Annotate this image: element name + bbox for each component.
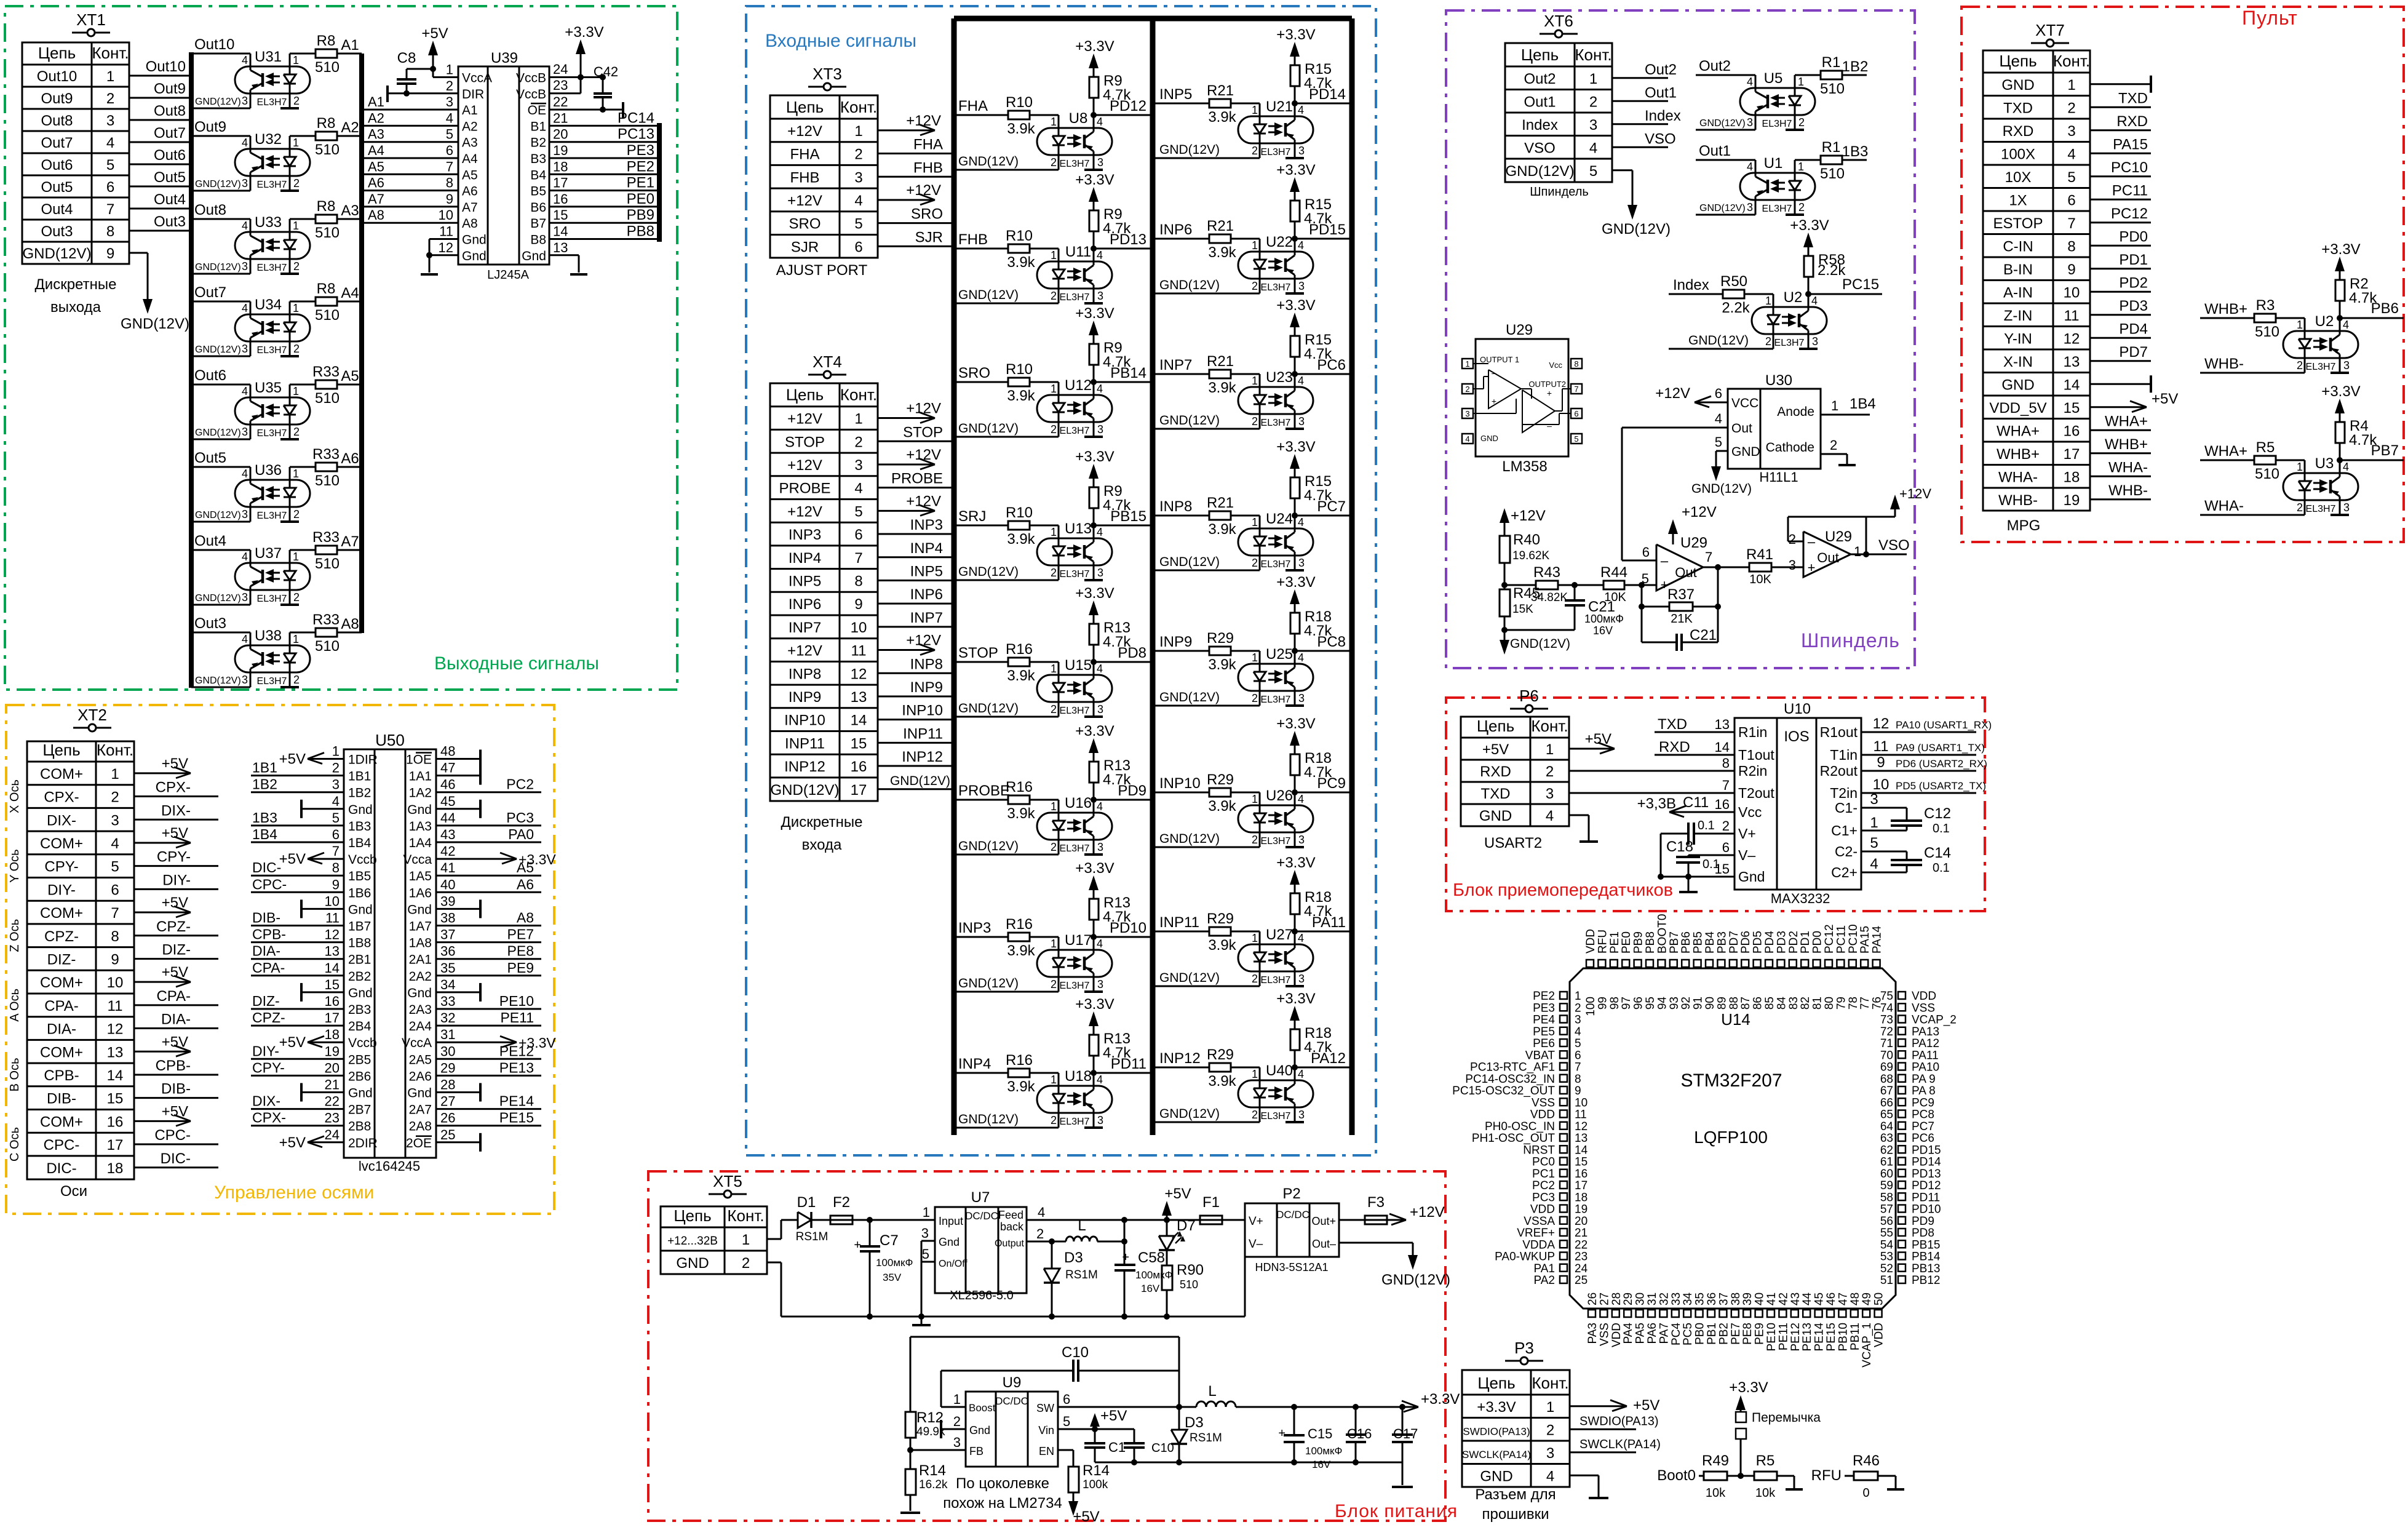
svg-text:Пульт: Пульт [2242,7,2298,29]
svg-text:GND(12V): GND(12V) [1699,203,1746,213]
svg-text:Блок питания: Блок питания [1335,1501,1458,1521]
svg-text:66: 66 [1880,1096,1893,1109]
svg-text:C Ось: C Ось [8,1127,22,1161]
wire Out1 [1612,100,1668,102]
pin 95 PB8 [1646,960,1653,967]
svg-text:PD3: PD3 [1775,931,1788,954]
svg-text:GND(12V): GND(12V) [958,839,1019,853]
optocoupler U25 [1238,664,1313,691]
wire CPA- [134,1004,218,1006]
svg-text:По цоколевке: По цоколевке [956,1475,1049,1492]
svg-text:INP3: INP3 [789,527,821,543]
svg-text:WHB+: WHB+ [2204,301,2247,317]
capacitor C18 [1688,855,1734,856]
wire PE14 [436,1108,541,1110]
svg-text:INP9: INP9 [789,689,821,706]
svg-text:PB10: PB10 [1837,1323,1850,1351]
svg-text:6: 6 [1574,409,1578,418]
svg-text:4: 4 [1546,808,1554,824]
svg-text:PE3: PE3 [627,142,654,159]
svg-text:XT2: XT2 [77,706,107,724]
svg-text:P3: P3 [1514,1339,1534,1357]
optocoupler U17 [1037,950,1112,977]
svg-text:GND(12V): GND(12V) [1159,832,1220,846]
power GND(12V) [1504,630,1506,647]
svg-text:PE8: PE8 [1741,1323,1754,1345]
svg-text:1X: 1X [2009,192,2027,209]
svg-text:PC11: PC11 [1835,925,1848,954]
svg-text:INP7: INP7 [910,610,943,626]
svg-text:Index: Index [1522,117,1558,133]
wire PC7 [1292,512,1298,519]
svg-text:+12V: +12V [1899,486,1931,501]
svg-text:Конт.: Конт. [2053,52,2090,70]
optocoupler U15 [1037,675,1112,702]
svg-text:C58: C58 [1138,1249,1165,1266]
pin 81 PD0 [1813,960,1821,967]
svg-text:AJUST PORT: AJUST PORT [776,262,868,279]
svg-text:37: 37 [1717,1293,1730,1305]
svg-text:PC8: PC8 [1317,634,1346,650]
svg-text:10: 10 [439,207,453,223]
pin 39 PE8 [1743,1310,1750,1317]
svg-text:3: 3 [1097,156,1103,169]
ground [301,991,344,993]
svg-text:4: 4 [1097,249,1103,261]
svg-text:2A5: 2A5 [409,1053,432,1067]
wire PE12 [436,1058,541,1060]
ground [1799,348,1818,350]
wire Out6 [129,164,191,165]
ground [280,520,299,523]
svg-text:1: 1 [1252,651,1258,664]
svg-text:Конт.: Конт. [1531,717,1568,735]
svg-text:12: 12 [439,240,453,255]
svg-text:2: 2 [1051,156,1057,169]
pin 1 PE2 [1560,992,1567,999]
svg-text:PB0: PB0 [1694,1323,1707,1345]
wire CPZ- [251,1025,344,1027]
svg-text:U40: U40 [1266,1062,1293,1079]
ground [436,1141,480,1143]
svg-text:Z Ось: Z Ось [8,919,22,952]
svg-text:PA15: PA15 [2113,136,2148,153]
svg-text:C10: C10 [1062,1344,1089,1361]
svg-text:U29: U29 [1680,535,1707,551]
wire Out7 [129,141,191,143]
svg-text:PC14-OSC32_IN: PC14-OSC32_IN [1465,1073,1555,1086]
svg-text:2: 2 [1789,532,1796,547]
svg-text:PA11: PA11 [1312,914,1346,931]
svg-text:CPA-: CPA- [44,998,79,1014]
wire [2276,460,2305,461]
svg-text:+5V: +5V [1164,1185,1191,1202]
svg-text:91: 91 [1692,997,1705,1010]
wire 1B3 [1842,159,1867,161]
svg-text:DIZ-: DIZ- [47,951,76,968]
svg-text:VDD_5V: VDD_5V [1989,400,2046,416]
svg-text:DIB-: DIB- [161,1081,191,1098]
svg-text:GND(12V): GND(12V) [195,262,241,273]
wire INP7 [878,626,954,628]
svg-text:3: 3 [921,1225,929,1241]
svg-text:Цепь: Цепь [786,98,824,116]
wire FHA [878,153,954,154]
svg-text:GND(12V): GND(12V) [770,782,839,799]
svg-text:Boost: Boost [969,1402,996,1414]
svg-text:37: 37 [440,927,455,942]
svg-text:PD11: PD11 [1912,1191,1940,1204]
svg-text:4: 4 [242,633,248,645]
wire PD3 [2090,314,2151,316]
svg-text:PROBE: PROBE [779,480,830,497]
wire [852,1219,935,1221]
svg-text:100X: 100X [2001,146,2035,162]
svg-text:GND(12V): GND(12V) [1159,971,1220,985]
svg-text:D3: D3 [1185,1414,1204,1431]
svg-text:Z-IN: Z-IN [2004,308,2033,324]
svg-text:2: 2 [293,343,300,355]
resistor R2 [2339,301,2341,318]
svg-text:Vcc: Vcc [1738,804,1762,820]
svg-text:EL3H7: EL3H7 [1261,147,1291,157]
svg-text:B3: B3 [530,152,546,166]
svg-text:1: 1 [293,137,299,149]
svg-text:3.9k: 3.9k [1208,244,1236,261]
pin 5 PE6 [1560,1039,1567,1046]
wire 1B3 [251,824,344,826]
resistor R10 [1008,244,1030,253]
svg-text:R10: R10 [1006,504,1033,521]
svg-text:INP3: INP3 [910,517,943,533]
svg-text:510: 510 [315,390,340,407]
svg-text:R44: R44 [1600,564,1627,581]
svg-text:Out8: Out8 [154,103,186,119]
svg-text:B4: B4 [530,168,546,182]
power +3.3V [1093,469,1095,481]
svg-text:5: 5 [1715,434,1722,450]
ground [2090,383,2151,385]
section box: Управление осями [6,705,554,1214]
svg-text:T1out: T1out [1738,747,1774,763]
power +3.3V [1093,1016,1095,1029]
svg-text:PD4: PD4 [1763,931,1776,954]
wire DIB- [251,925,344,926]
resistor R4 [2339,443,2341,460]
svg-text:9: 9 [1877,754,1885,771]
svg-text:GND(12V): GND(12V) [195,97,241,107]
svg-text:18: 18 [325,1027,340,1042]
svg-text:U39: U39 [491,50,518,66]
svg-text:28: 28 [440,1077,455,1093]
svg-text:2: 2 [293,591,300,604]
svg-text:1: 1 [293,54,299,66]
svg-text:PD0: PD0 [2119,228,2148,245]
svg-text:1: 1 [111,766,119,783]
pin 7 PC13-RTC_AF1 [1560,1063,1567,1070]
svg-text:B5: B5 [530,185,546,199]
svg-text:COM+: COM+ [40,1114,83,1130]
svg-text:PC13-RTC_AF1: PC13-RTC_AF1 [1470,1061,1555,1074]
svg-text:C1-: C1- [1835,800,1858,816]
svg-text:2: 2 [293,260,300,273]
svg-text:A2: A2 [341,119,359,136]
svg-text:2B7: 2B7 [348,1103,371,1117]
optocoupler U1 [1740,173,1815,200]
svg-text:FHA: FHA [790,146,820,163]
wire PROBE [878,487,954,488]
ground [421,273,438,276]
pin 79 PC11 [1837,960,1844,967]
svg-text:R1out: R1out [1820,724,1858,740]
svg-text:R10: R10 [1006,361,1033,378]
svg-text:19: 19 [1575,1203,1587,1216]
capacitor C12 [1861,807,1907,809]
wire CPX- [134,795,218,797]
svg-text:Out5: Out5 [41,179,73,196]
svg-text:U12: U12 [1065,377,1092,394]
svg-text:20: 20 [553,127,568,142]
svg-text:23: 23 [325,1110,340,1126]
svg-text:1A4: 1A4 [409,836,432,850]
pin 56 PD9 [1898,1217,1905,1224]
resistor R1 [1795,74,1821,76]
svg-text:DIC-: DIC- [161,1150,191,1167]
pin 46 PE15 [1827,1310,1834,1317]
svg-text:7: 7 [854,550,862,567]
svg-text:29: 29 [1622,1293,1635,1305]
svg-text:3.9k: 3.9k [1007,805,1035,822]
wire A8 [337,632,362,634]
ground [436,908,480,910]
resistor R3 [2254,314,2276,322]
svg-text:10: 10 [325,893,340,909]
svg-text:PD12: PD12 [1912,1179,1941,1192]
svg-text:FHB: FHB [913,159,943,176]
svg-text:VDD: VDD [1584,929,1597,954]
svg-text:A6: A6 [517,876,534,892]
ground [1084,990,1103,993]
wire Cathode [1821,453,1847,455]
svg-text:32: 32 [440,1010,455,1026]
svg-text:67: 67 [1880,1085,1893,1098]
svg-text:12: 12 [1873,715,1889,732]
wire Out8 [129,119,191,121]
svg-text:C1: C1 [1108,1440,1126,1455]
pin 65 PC8 [1898,1110,1905,1118]
svg-text:R33: R33 [312,612,340,628]
ground [1786,129,1804,131]
svg-text:PE7: PE7 [507,926,534,942]
svg-text:87: 87 [1739,997,1752,1010]
ground [910,1495,912,1511]
ground [301,808,344,810]
svg-text:A1: A1 [368,94,384,110]
svg-text:INP11: INP11 [1159,914,1199,931]
svg-text:1: 1 [1252,516,1258,528]
svg-text:+12V: +12V [906,182,941,199]
svg-text:+5V: +5V [279,851,306,867]
svg-text:PE10: PE10 [1765,1323,1778,1351]
svg-text:PC13: PC13 [618,126,654,143]
svg-text:84: 84 [1775,997,1788,1010]
wire INP11 [878,742,954,744]
svg-text:3: 3 [1097,423,1103,436]
svg-text:+3.3V: +3.3V [1276,990,1315,1007]
svg-text:+12V: +12V [1655,385,1690,402]
svg-text:5: 5 [446,127,453,142]
svg-text:Конт.: Конт. [97,741,133,759]
pin 32 PA7 [1659,1310,1667,1317]
svg-text:2: 2 [293,426,300,438]
svg-text:INP9: INP9 [910,679,943,696]
svg-text:PE6: PE6 [1533,1037,1555,1050]
svg-text:PA13: PA13 [1912,1026,1939,1038]
svg-text:16: 16 [1575,1168,1587,1181]
svg-text:3: 3 [1747,201,1753,213]
svg-text:OE: OE [528,103,546,118]
svg-text:13: 13 [851,689,867,706]
svg-text:R3: R3 [2256,297,2275,314]
svg-text:CPA-: CPA- [252,960,285,976]
svg-text:PD2: PD2 [1787,931,1800,954]
svg-text:2: 2 [1798,116,1805,129]
pin 43 PE12 [1791,1310,1798,1317]
svg-text:PA7: PA7 [1658,1323,1671,1344]
svg-text:2: 2 [742,1255,750,1272]
optocoupler U26 [1238,805,1313,832]
svg-text:INP10: INP10 [1159,775,1201,792]
svg-text:VDDA: VDDA [1522,1238,1555,1251]
ground [1285,704,1304,707]
optocoupler U33 [235,232,310,259]
svg-text:7: 7 [1722,778,1730,793]
svg-text:29: 29 [440,1060,455,1075]
svg-text:EL3H7: EL3H7 [1774,338,1805,348]
svg-text:U37: U37 [255,545,282,562]
wire Out- [1339,1242,1413,1244]
svg-text:PD8: PD8 [1912,1227,1934,1240]
power +5V [1073,1492,1075,1508]
svg-text:EL3H7: EL3H7 [1261,1111,1291,1122]
svg-text:U23: U23 [1266,369,1293,386]
svg-text:Gnd: Gnd [462,249,487,263]
svg-text:11: 11 [1575,1109,1587,1122]
svg-text:22: 22 [325,1094,340,1109]
svg-text:U22: U22 [1266,234,1293,250]
svg-text:3: 3 [1298,557,1305,569]
svg-text:Out10: Out10 [146,58,186,75]
svg-text:3.9k: 3.9k [1208,656,1236,673]
wire PC13 [549,141,659,143]
svg-text:36: 36 [1706,1293,1719,1305]
svg-text:4: 4 [1298,375,1304,387]
svg-text:WHB+: WHB+ [2105,436,2148,453]
pin 37 PB2 [1719,1310,1727,1317]
power +3.3V [2339,261,2341,274]
svg-text:17: 17 [107,1137,124,1153]
wire TXD [1569,792,1734,794]
power +5V [308,758,344,760]
svg-text:1: 1 [293,302,299,314]
svg-text:2OE: 2OE [406,1136,432,1150]
ground [280,604,299,606]
svg-text:3: 3 [1465,409,1469,418]
svg-text:PE1: PE1 [627,175,654,191]
svg-text:+3.3V: +3.3V [1075,860,1114,877]
svg-text:GND(12V): GND(12V) [1691,482,1752,496]
svg-text:2: 2 [1252,280,1258,292]
svg-text:Входные сигналы: Входные сигналы [765,31,916,51]
resistor R16 [1008,1069,1030,1077]
ground [280,273,299,275]
pin 17 PC2 [1560,1181,1567,1189]
svg-text:2A1: 2A1 [409,953,432,967]
wire SRO [878,222,954,224]
pin 47 PB10 [1838,1310,1846,1317]
svg-text:6: 6 [2067,192,2075,209]
optocoupler U2 [1752,307,1827,334]
svg-text:16: 16 [325,994,340,1009]
svg-text:38: 38 [440,910,455,926]
svg-text:13: 13 [1715,717,1730,732]
svg-text:DC/DC: DC/DC [965,1210,998,1222]
pin 42 PE11 [1779,1310,1786,1317]
svg-text:R21: R21 [1207,495,1234,511]
svg-text:PC6: PC6 [1912,1132,1934,1145]
svg-text:Index: Index [1645,108,1681,124]
wire PC12 [2090,221,2151,223]
pin 49 VCAP_1 [1862,1310,1870,1317]
wire Gnd pin13 [549,254,579,256]
pin 92 PB6 [1682,960,1689,967]
svg-text:2: 2 [854,434,862,450]
svg-text:+3.3V: +3.3V [1790,217,1829,234]
svg-text:PB7: PB7 [2371,442,2399,459]
svg-text:1B1: 1B1 [252,760,277,776]
power +12V [878,649,935,651]
svg-text:PD11: PD11 [1111,1056,1146,1072]
power +12V [878,510,935,512]
svg-text:4: 4 [2343,461,2349,473]
svg-text:R8: R8 [317,281,336,297]
svg-text:PD7: PD7 [2119,344,2148,361]
svg-text:GND(12V): GND(12V) [1381,1272,1450,1288]
svg-text:CPZ-: CPZ- [252,1010,285,1026]
svg-text:17: 17 [2064,446,2080,463]
svg-text:14: 14 [851,712,867,729]
svg-text:39: 39 [440,893,455,909]
pin 98 PE1 [1610,960,1618,967]
svg-text:+12V: +12V [906,113,941,129]
svg-text:11: 11 [325,910,340,926]
svg-text:6: 6 [106,179,114,196]
svg-text:SJR: SJR [915,229,943,245]
op-amp U29.2 [1803,532,1851,577]
wire PC11 [2090,199,2151,201]
power +3.3V [1093,743,1095,755]
svg-text:T2in: T2in [1830,785,1858,801]
power +5V [134,912,191,914]
wire PD9 [1091,797,1097,803]
svg-text:16: 16 [553,191,568,207]
svg-text:U1: U1 [1764,155,1783,172]
svg-text:33: 33 [1670,1293,1683,1305]
svg-text:R41: R41 [1746,546,1773,563]
svg-text:3.9k: 3.9k [1208,1073,1236,1090]
svg-text:10: 10 [107,974,124,991]
svg-text:WHB-: WHB- [2204,356,2244,372]
